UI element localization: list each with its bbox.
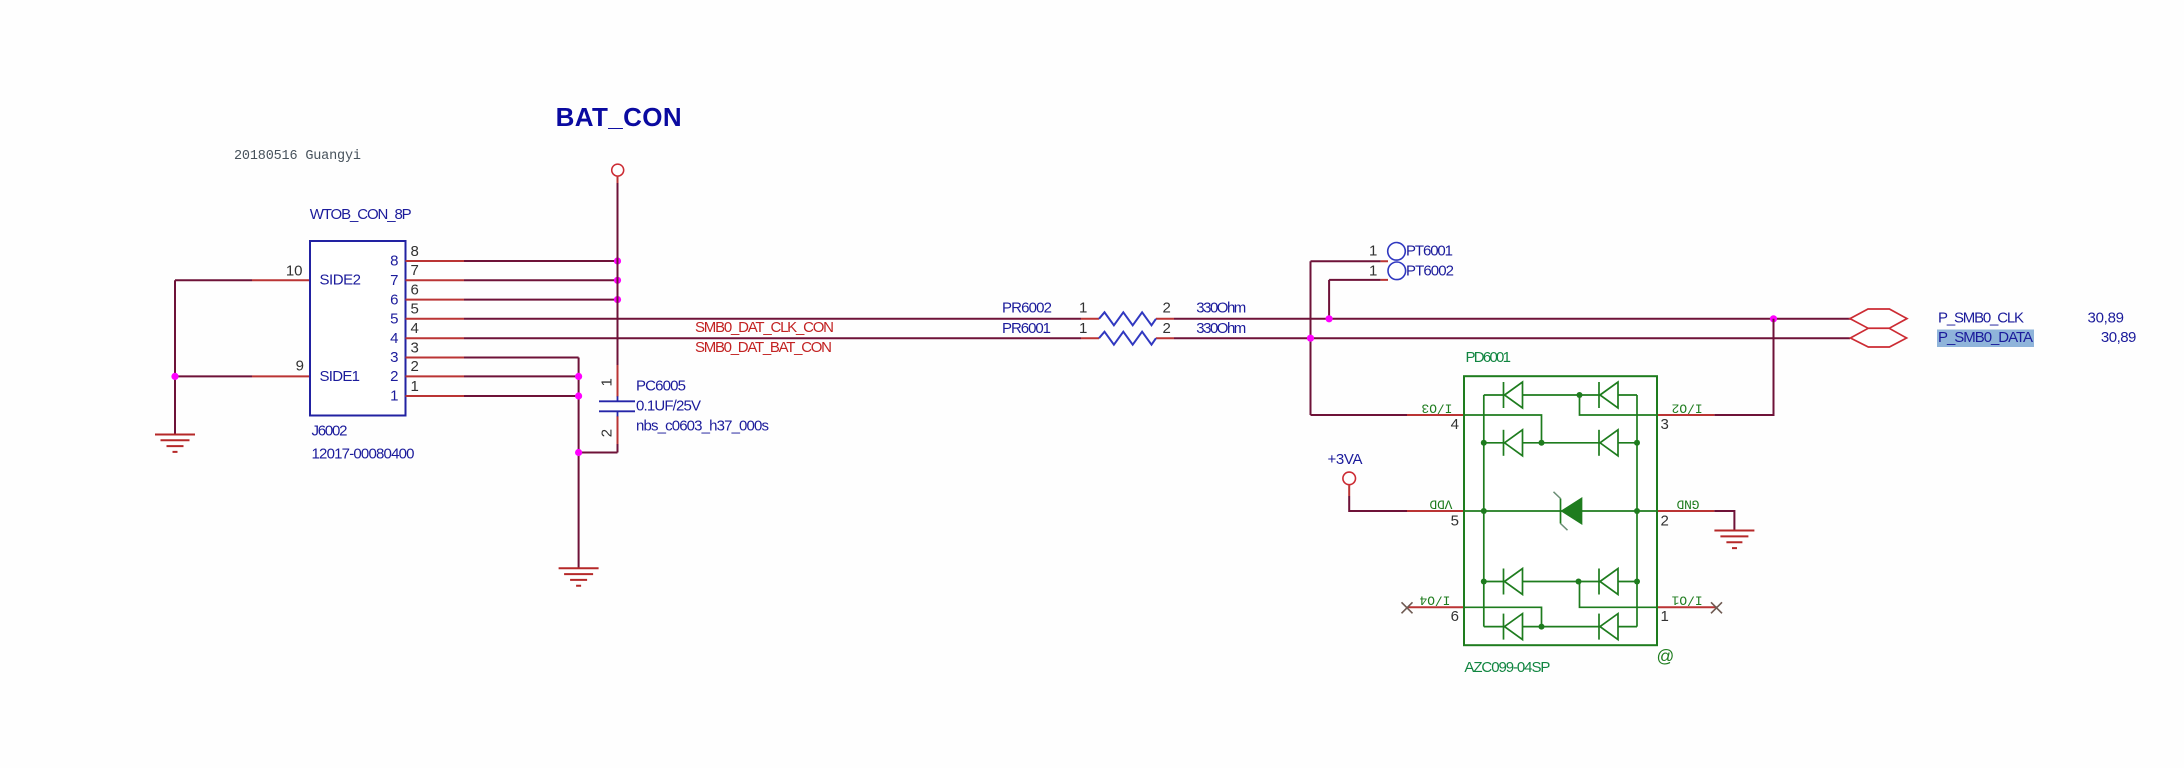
svg-text:2: 2 bbox=[599, 429, 616, 437]
svg-text:I/O2: I/O2 bbox=[1672, 400, 1703, 415]
svg-text:I/O4: I/O4 bbox=[1419, 593, 1450, 608]
svg-text:6: 6 bbox=[411, 281, 419, 298]
svg-text:6: 6 bbox=[390, 291, 398, 308]
svg-text:0.1UF/25V: 0.1UF/25V bbox=[636, 398, 701, 415]
svg-text:1: 1 bbox=[411, 378, 419, 395]
svg-text:5: 5 bbox=[1451, 513, 1459, 530]
svg-text:+3VA: +3VA bbox=[1328, 451, 1363, 468]
svg-text:3: 3 bbox=[411, 339, 419, 356]
svg-text:GND: GND bbox=[1676, 496, 1699, 511]
svg-text:SIDE2: SIDE2 bbox=[320, 271, 362, 288]
svg-text:I/O1: I/O1 bbox=[1671, 593, 1702, 608]
svg-text:7: 7 bbox=[411, 262, 419, 279]
svg-text:1: 1 bbox=[1369, 262, 1377, 279]
svg-text:8: 8 bbox=[411, 243, 419, 260]
svg-text:3: 3 bbox=[1661, 416, 1669, 433]
svg-text:AZC099-04SP: AZC099-04SP bbox=[1464, 659, 1550, 676]
svg-text:2: 2 bbox=[1163, 299, 1171, 316]
svg-text:2: 2 bbox=[1163, 320, 1171, 337]
svg-text:4: 4 bbox=[1451, 416, 1459, 433]
svg-text:2: 2 bbox=[411, 358, 419, 375]
svg-text:SMB0_DAT_CLK_CON: SMB0_DAT_CLK_CON bbox=[695, 319, 834, 336]
svg-text:BAT_CON: BAT_CON bbox=[556, 102, 682, 132]
svg-text:8: 8 bbox=[390, 253, 398, 270]
svg-text:1: 1 bbox=[599, 378, 616, 386]
svg-text:330Ohm: 330Ohm bbox=[1196, 320, 1246, 337]
svg-text:6: 6 bbox=[1451, 608, 1459, 625]
svg-text:30,89: 30,89 bbox=[2088, 309, 2125, 326]
svg-text:4: 4 bbox=[411, 320, 419, 337]
svg-text:1: 1 bbox=[390, 388, 398, 405]
svg-text:PR6001: PR6001 bbox=[1002, 320, 1051, 337]
svg-text:5: 5 bbox=[411, 301, 419, 318]
svg-text:5: 5 bbox=[390, 311, 398, 328]
svg-text:nbs_c0603_h37_000s: nbs_c0603_h37_000s bbox=[636, 418, 769, 435]
svg-text:3: 3 bbox=[390, 349, 398, 366]
svg-text:PT6001: PT6001 bbox=[1406, 242, 1453, 259]
svg-text:1: 1 bbox=[1079, 320, 1087, 337]
svg-text:330Ohm: 330Ohm bbox=[1196, 299, 1246, 316]
svg-text:PT6002: PT6002 bbox=[1406, 263, 1454, 280]
svg-text:1: 1 bbox=[1079, 299, 1087, 316]
svg-text:4: 4 bbox=[390, 330, 398, 347]
svg-text:2: 2 bbox=[1661, 513, 1669, 530]
svg-text:PD6001: PD6001 bbox=[1466, 349, 1512, 366]
svg-text:7: 7 bbox=[390, 272, 398, 289]
svg-text:PR6002: PR6002 bbox=[1002, 299, 1052, 316]
svg-text:12017-00080400: 12017-00080400 bbox=[312, 446, 415, 463]
svg-text:9: 9 bbox=[296, 358, 304, 375]
svg-text:10: 10 bbox=[286, 263, 303, 280]
svg-text:1: 1 bbox=[1661, 608, 1669, 625]
svg-text:P_SMB0_CLK: P_SMB0_CLK bbox=[1938, 309, 2024, 326]
svg-text:J6002: J6002 bbox=[312, 423, 348, 440]
svg-text:WTOB_CON_8P: WTOB_CON_8P bbox=[310, 206, 412, 223]
svg-text:@: @ bbox=[1657, 646, 1675, 666]
svg-text:1: 1 bbox=[1369, 242, 1377, 259]
svg-text:VDD: VDD bbox=[1429, 496, 1452, 511]
svg-text:20180516 Guangyi: 20180516 Guangyi bbox=[234, 149, 361, 164]
svg-text:30,89: 30,89 bbox=[2101, 329, 2137, 346]
svg-text:SIDE1: SIDE1 bbox=[320, 368, 361, 385]
svg-text:P_SMB0_DATA: P_SMB0_DATA bbox=[1938, 329, 2033, 346]
svg-text:SMB0_DAT_BAT_CON: SMB0_DAT_BAT_CON bbox=[695, 339, 832, 356]
svg-text:2: 2 bbox=[390, 368, 398, 385]
svg-text:I/O3: I/O3 bbox=[1421, 400, 1452, 415]
svg-text:PC6005: PC6005 bbox=[636, 378, 686, 395]
